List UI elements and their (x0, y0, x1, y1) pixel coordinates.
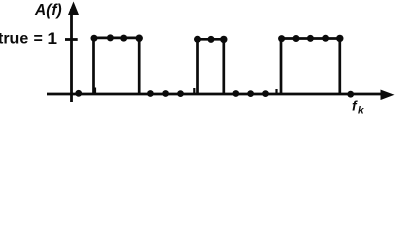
sample dots pulse 2 top (194, 36, 228, 43)
x-axis (47, 93, 383, 96)
x-axis tick 2 (193, 88, 195, 94)
pulse 2 outline (198, 39, 224, 94)
svg-text:k: k (358, 106, 364, 117)
y-axis (70, 9, 73, 102)
svg-text:true: true (0, 31, 28, 48)
sample dots pulse 1 top (91, 34, 143, 42)
x-axis arrowhead (381, 90, 395, 101)
pulse 3 outline (281, 39, 340, 95)
pulse 1 outline (94, 38, 140, 94)
sample dots pulse 3 top (278, 35, 343, 42)
svg-text:1: 1 (48, 29, 57, 48)
svg-text:A(f): A(f) (34, 2, 62, 19)
y-axis arrowhead (68, 2, 79, 16)
x-axis tick 1 (94, 88, 96, 95)
svg-text:=: = (34, 31, 43, 48)
level-1 tick on y-axis (65, 38, 78, 41)
sample dots on baseline (75, 90, 354, 98)
x-axis tick 3 (275, 89, 277, 94)
